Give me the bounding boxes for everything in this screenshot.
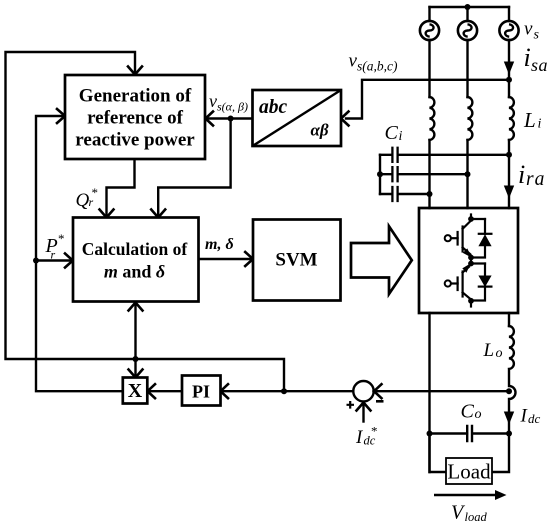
wire capacitor common bus	[379, 155, 381, 194]
svg-text:o: o	[496, 346, 503, 361]
capacitor Ci plates row 3	[392, 187, 397, 201]
arrow ira current	[504, 186, 514, 199]
ac source sine c	[505, 24, 513, 36]
arrowhead into calculation box bottom	[129, 303, 143, 311]
ac source sine b	[464, 24, 472, 36]
inductor Li phase c	[509, 97, 514, 140]
svg-text:i: i	[524, 43, 531, 72]
svg-text:C: C	[385, 122, 399, 144]
transistor Q1 emitter arrowhead	[463, 248, 472, 257]
svg-text:*: *	[58, 231, 65, 246]
transistor Q2 gate bar	[457, 278, 459, 291]
wire vs(alpha,beta) drop to calc	[158, 119, 230, 216]
transistor Q1 body bar	[462, 227, 464, 252]
svg-text:PI: PI	[192, 382, 210, 402]
transistor Q1 emitter	[463, 248, 471, 258]
diode D2 lead bottom	[471, 287, 485, 301]
svg-text:s: s	[534, 28, 540, 43]
node source bus	[465, 4, 471, 10]
arrow Vload head	[495, 490, 507, 500]
node vs alpha beta	[228, 116, 234, 122]
wire Vload arrow shaft	[434, 494, 496, 497]
svg-text:Load: Load	[447, 460, 491, 484]
converter rectifier box	[419, 208, 518, 313]
SECTION: chevron arrowheads	[57, 67, 382, 411]
diode D2 lead top	[484, 264, 486, 276]
SECTION: control boxes	[65, 75, 492, 484]
wire capacitor row 2	[380, 173, 468, 175]
block calculation of m and delta	[73, 218, 199, 302]
wire Pr arrow stub	[36, 259, 72, 261]
node vs tap	[506, 77, 512, 83]
svg-text:ra: ra	[526, 169, 545, 190]
arrowhead m delta into SVM box left	[245, 252, 253, 266]
diagonal of abc box	[253, 90, 342, 146]
transistor Q1 collector	[463, 222, 470, 229]
SECTION: ac sources	[420, 21, 519, 40]
wire vs(a,b,c) measurement line	[346, 80, 509, 119]
wire feedback top loop	[6, 52, 285, 391]
arrowhead into summing junction right	[374, 384, 382, 398]
svg-text:v: v	[209, 91, 217, 111]
ac source sine a	[426, 24, 434, 36]
svg-text:reference of: reference of	[87, 108, 183, 129]
block Load	[446, 458, 492, 484]
wire phase b vertical	[466, 40, 468, 208]
block generation of reference of reactive power	[65, 75, 205, 159]
svg-text:s(α, β): s(α, β)	[217, 100, 248, 114]
wire top source bus	[430, 6, 510, 8]
wire converter output left	[428, 313, 430, 472]
wire Qr drop	[107, 159, 135, 216]
transistor Q2 emitter	[463, 267, 469, 273]
wire PI to summing junction	[222, 390, 354, 392]
transistor Q2 gate terminal circle	[445, 280, 451, 286]
diode D1 cathode bar	[479, 233, 492, 235]
node PI input tap	[281, 388, 287, 394]
inductor Li phase a	[430, 97, 435, 140]
wire Pr vertical bus	[36, 116, 123, 391]
node converter mid lower	[468, 261, 474, 267]
capacitor Ci plates row 2	[392, 167, 397, 181]
wire vs(alpha,beta) row	[207, 117, 253, 119]
node Pr	[33, 258, 39, 264]
ac source circle c	[499, 21, 518, 40]
diode D1 lead top	[484, 219, 486, 234]
svg-text:reactive power: reactive power	[75, 130, 195, 151]
svg-text:i: i	[538, 117, 542, 132]
node cap row1	[506, 152, 512, 158]
wire Co row	[430, 432, 510, 434]
svg-text:abc: abc	[259, 97, 288, 118]
node X tap	[133, 356, 139, 362]
SECTION: converter internals	[451, 215, 491, 307]
arrowhead Idc star into summing junction bottom	[357, 403, 371, 411]
wire Idc feedback tap	[374, 390, 510, 392]
wire phase a vertical	[428, 40, 430, 208]
node converter bottom	[468, 298, 474, 304]
wire source drop a	[428, 7, 430, 21]
wire X vertical through junction	[134, 304, 136, 376]
svg-text:m and δ: m and δ	[104, 262, 165, 282]
diode D2 triangle	[478, 276, 491, 288]
big arrow SVM to converter	[351, 226, 412, 294]
svg-text:X: X	[128, 380, 143, 402]
arrowhead into generation box top	[128, 67, 142, 75]
arrow isa current	[504, 62, 514, 75]
arrowhead vs into calculation box top	[151, 210, 165, 218]
arrowhead into X box top	[129, 370, 143, 378]
transistor Q2 collector	[463, 293, 471, 300]
ac source circle a	[420, 21, 439, 40]
summing junction circle	[353, 381, 373, 401]
svg-text:load: load	[465, 510, 488, 524]
SECTION: junction dots	[33, 4, 512, 437]
svg-text:Calculation of: Calculation of	[82, 239, 188, 259]
block abc to alpha-beta	[253, 90, 342, 146]
svg-text:αβ: αβ	[311, 121, 329, 140]
node cap row3	[427, 191, 433, 197]
svg-text:Generation of: Generation of	[79, 86, 192, 107]
capacitor Ci plates row 1	[392, 148, 397, 162]
wire Idc star arrow	[362, 404, 364, 422]
SECTION: control wires	[6, 52, 364, 422]
block PI controller	[182, 376, 221, 406]
wire converter output right to Lo	[508, 313, 510, 326]
wire phase c vertical	[508, 40, 510, 208]
svg-text:m, δ: m, δ	[205, 236, 234, 253]
node Co right	[506, 431, 512, 437]
inductor Lo	[509, 326, 516, 434]
diode D1 triangle	[478, 234, 491, 246]
arrowhead Pr into calculation box left	[65, 254, 73, 268]
wire load right leg	[492, 434, 509, 473]
node cap bus	[377, 171, 383, 177]
diode D1 lead bottom	[471, 246, 485, 258]
arrowhead Qr into calculation box top	[100, 210, 114, 218]
transistor Q1 gate lead	[451, 237, 457, 239]
wire source drop b	[466, 7, 468, 21]
svg-text:r: r	[51, 248, 56, 262]
svg-text:i: i	[399, 129, 403, 144]
block X multiplier	[123, 378, 148, 404]
transistor Q2 gate lead	[451, 282, 457, 284]
transistor Q2 body bar	[462, 272, 464, 297]
arrowhead into abc box right	[341, 112, 349, 126]
arrowhead into generation box left	[57, 109, 65, 123]
svg-text:i: i	[518, 160, 525, 189]
svg-text:sa: sa	[531, 55, 548, 75]
node Co left	[427, 431, 433, 437]
label minus sign	[376, 400, 384, 403]
svg-text:SVM: SVM	[275, 250, 317, 271]
svg-text:dc: dc	[528, 411, 541, 426]
transistor Q1 gate bar	[457, 232, 459, 245]
svg-text:s(a,b,c): s(a,b,c)	[357, 59, 398, 74]
capacitor Co plates	[467, 426, 472, 441]
label plus sign	[347, 401, 355, 409]
SECTION: solid arrows	[495, 62, 514, 501]
svg-text:o: o	[475, 407, 482, 422]
wire X to PI	[149, 390, 182, 392]
wire capacitor row 1	[380, 154, 509, 156]
arrow Idc current	[504, 412, 514, 425]
svg-text:L: L	[523, 108, 536, 132]
node Idc tap	[506, 388, 512, 394]
transistor Q1 gate terminal circle	[445, 235, 451, 241]
svg-text:Q: Q	[76, 190, 90, 211]
wire capacitor row 3	[380, 193, 430, 195]
diode D2 anode bar	[479, 286, 492, 288]
wire source drop c	[508, 7, 510, 21]
svg-text:v: v	[524, 19, 533, 40]
ac source circle b	[458, 21, 477, 40]
svg-text:L: L	[483, 340, 495, 361]
node converter mid upper	[468, 255, 474, 261]
arrowhead into generation box right	[206, 112, 214, 126]
transistor Q2 emitter arrowhead	[462, 263, 471, 273]
node converter top	[468, 216, 474, 222]
arrowhead into X box right	[148, 384, 156, 398]
block SVM	[253, 220, 341, 301]
wire m delta row	[199, 258, 252, 260]
wire bottom cell stub	[470, 301, 472, 307]
wire mid node	[471, 258, 485, 264]
wire load left leg	[430, 434, 447, 473]
svg-text:*: *	[371, 424, 378, 439]
inductor Li phase b	[468, 97, 473, 140]
svg-text:*: *	[92, 185, 99, 200]
wire top cell node stub	[471, 215, 485, 220]
arrowhead into PI box right	[221, 384, 229, 398]
svg-text:C: C	[461, 401, 475, 423]
node cap row2	[465, 171, 471, 177]
